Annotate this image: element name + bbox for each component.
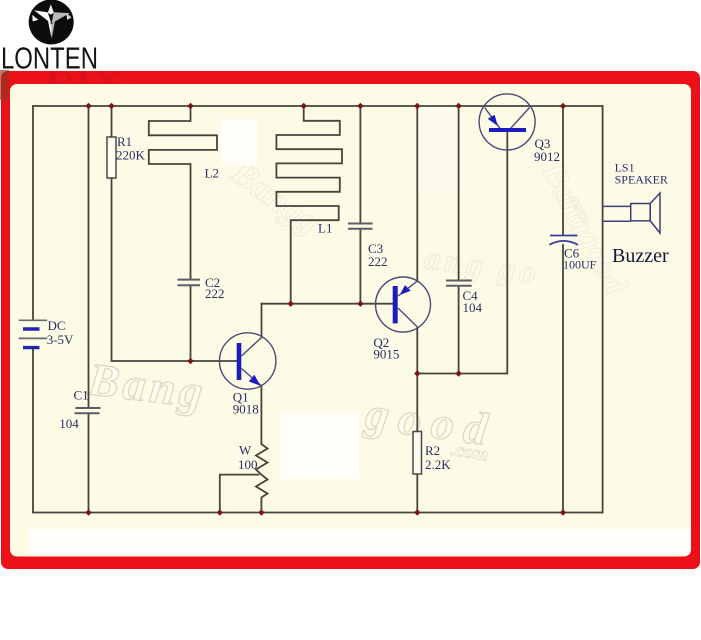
svg-text:2.2K: 2.2K	[425, 457, 451, 472]
svg-text:104: 104	[463, 300, 483, 315]
svg-text:LONTEN: LONTEN	[1, 42, 98, 76]
svg-text:100: 100	[238, 457, 258, 472]
svg-text:9015: 9015	[373, 347, 399, 362]
svg-text:104: 104	[59, 416, 79, 431]
svg-text:222: 222	[205, 286, 225, 301]
svg-text:SPEAKER: SPEAKER	[615, 173, 668, 187]
svg-text:222: 222	[368, 254, 388, 269]
svg-text:Buzzer: Buzzer	[612, 245, 669, 267]
svg-text:9012: 9012	[534, 149, 560, 164]
svg-text:C1: C1	[74, 388, 89, 403]
svg-text:100UF: 100UF	[563, 258, 597, 272]
svg-text:L2: L2	[205, 166, 219, 181]
svg-text:220K: 220K	[116, 148, 146, 163]
svg-text:L1: L1	[318, 221, 332, 236]
svg-text:3-5V: 3-5V	[47, 332, 74, 347]
svg-text:DC: DC	[48, 318, 66, 333]
svg-text:9018: 9018	[233, 402, 259, 417]
svg-text:W: W	[239, 443, 252, 458]
svg-text:R2: R2	[425, 443, 440, 458]
